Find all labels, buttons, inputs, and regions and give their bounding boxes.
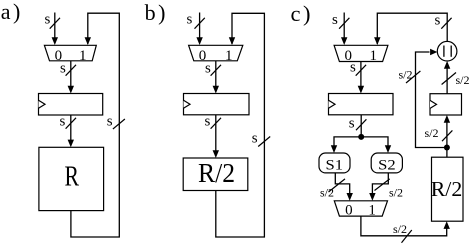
node s/2 S1 out label [320,186,334,200]
svg-text:a): a) [1,0,23,24]
mux U1a [44,45,96,64]
node s mux out (b) label [205,60,211,76]
wire register to R/2 (b) [213,115,219,158]
svg-text:s: s [45,12,51,28]
node s register out (b) label [205,113,211,129]
svg-text:c): c) [291,1,313,26]
bus slash s input (a) [50,18,60,29]
wire register to R (a) [68,115,74,147]
bus slash register out (a) [66,118,76,129]
node s/2 register2 in label [424,126,438,140]
junction node (c) split [358,134,364,140]
bus slash register1 out (c) [356,119,366,130]
svg-text:R/2: R/2 [198,158,235,188]
wire feedback top (b) [216,13,265,237]
label c) [291,1,313,26]
label b) [145,0,168,25]
wire S1 to mux2 (c) [335,173,353,201]
concatenation operator U3c [437,41,457,61]
bus slash register2 in (c) [442,130,452,141]
wire mux to register (a) [68,61,74,94]
node s/2 concat left label [398,68,412,82]
wire s input (c) [341,13,347,46]
svg-text:1: 1 [79,48,87,64]
wire mux to register (b) [213,61,219,94]
bus slash mux out (b) [211,65,221,76]
bus slash mux1 out (c) [356,65,366,76]
node s register out (a) label [60,113,66,129]
node s register1 out (c) label [349,116,355,132]
wire feedback top (c) [374,13,447,45]
junction node (c) R/2 out [444,145,450,151]
bus slash s input (c) [339,18,349,29]
node s feedback (a) label [107,114,113,130]
bus slash mux out (a) [66,65,76,76]
wire s input (b) [196,13,202,46]
svg-text:s/2: s/2 [389,186,403,200]
svg-text:s/2: s/2 [320,186,334,200]
wire junction to concat left (c) [416,49,447,148]
bus slash S1 out (c) [329,179,346,192]
mux U2c [334,201,387,219]
bus slash feedback (b) [258,137,270,147]
svg-text:S1: S1 [326,158,344,174]
svg-text:s: s [350,60,356,76]
wire register1 out (c) [360,115,362,137]
bus slash concat bottom (c) [442,73,456,85]
register REG-b [184,94,250,115]
svg-text:1: 1 [369,48,377,64]
bus slash s input (b) [195,18,205,29]
svg-text:S2: S2 [378,158,396,174]
node s/2 S2 out label [389,186,403,200]
bus slash feedback (a) [113,119,125,129]
bus slash register out (b) [211,118,221,129]
register REG-a [39,94,103,116]
register REG1-c [329,94,394,115]
bus slash concat left (c) [406,71,420,83]
svg-text:s: s [332,12,338,28]
bus slash feedback (c) [441,18,451,29]
svg-text:s/2: s/2 [393,222,407,236]
svg-text:b): b) [145,0,168,25]
bus slash S2 out (c) [375,179,390,191]
svg-text:s: s [60,60,66,76]
wire mux1 to register1 (c) [358,62,364,94]
node s feedback (c) label [435,13,441,29]
svg-text:s: s [205,113,211,129]
node s/2 mux2 out label [393,222,407,236]
svg-text:s: s [349,116,355,132]
mux U1c [334,45,388,64]
svg-text:s: s [205,60,211,76]
wire register2 to concat (c) [444,61,450,94]
node s mux1 out (c) label [350,60,356,76]
wire split to S1 (c) [331,137,361,153]
label a) [1,0,23,24]
node s mux out (a) label [60,60,66,76]
svg-text:R/2: R/2 [431,177,463,201]
node s input (a) label [45,12,51,28]
wire s input (a) [52,13,58,46]
register REG2-c [430,94,462,115]
svg-text:R: R [65,162,80,193]
svg-text:s: s [252,131,258,147]
svg-text:s/2: s/2 [424,126,438,140]
node s feedback (b) label [252,131,258,147]
bus slash mux2 out (c) [402,230,412,243]
svg-text:s: s [187,12,193,28]
node s/2 concat bottom label [455,73,469,87]
wire feedback top (a) [71,13,119,237]
svg-text:s/2: s/2 [455,73,469,87]
svg-text:s: s [60,113,66,129]
block R/2 (c) [431,157,463,221]
svg-text:s: s [107,114,113,130]
node s input (c) label [332,12,338,28]
wire S2 to mux2 (c) [369,173,388,201]
block S2 [371,153,402,174]
mux U1b [189,45,243,64]
svg-text:0: 0 [345,202,353,218]
wire split to S2 (c) [361,137,391,153]
block S1 [319,153,350,174]
svg-text:s: s [435,13,441,29]
block R (a) [39,147,104,210]
wire R/2 to junction (c) [446,148,448,158]
wire junction to register2 (c) [444,115,450,148]
block R/2 (b) [183,158,248,191]
wire mux2 to R/2 (c) [361,216,450,236]
svg-text:1: 1 [225,48,233,64]
svg-text:1: 1 [368,202,376,218]
node s input (b) label [187,12,193,28]
